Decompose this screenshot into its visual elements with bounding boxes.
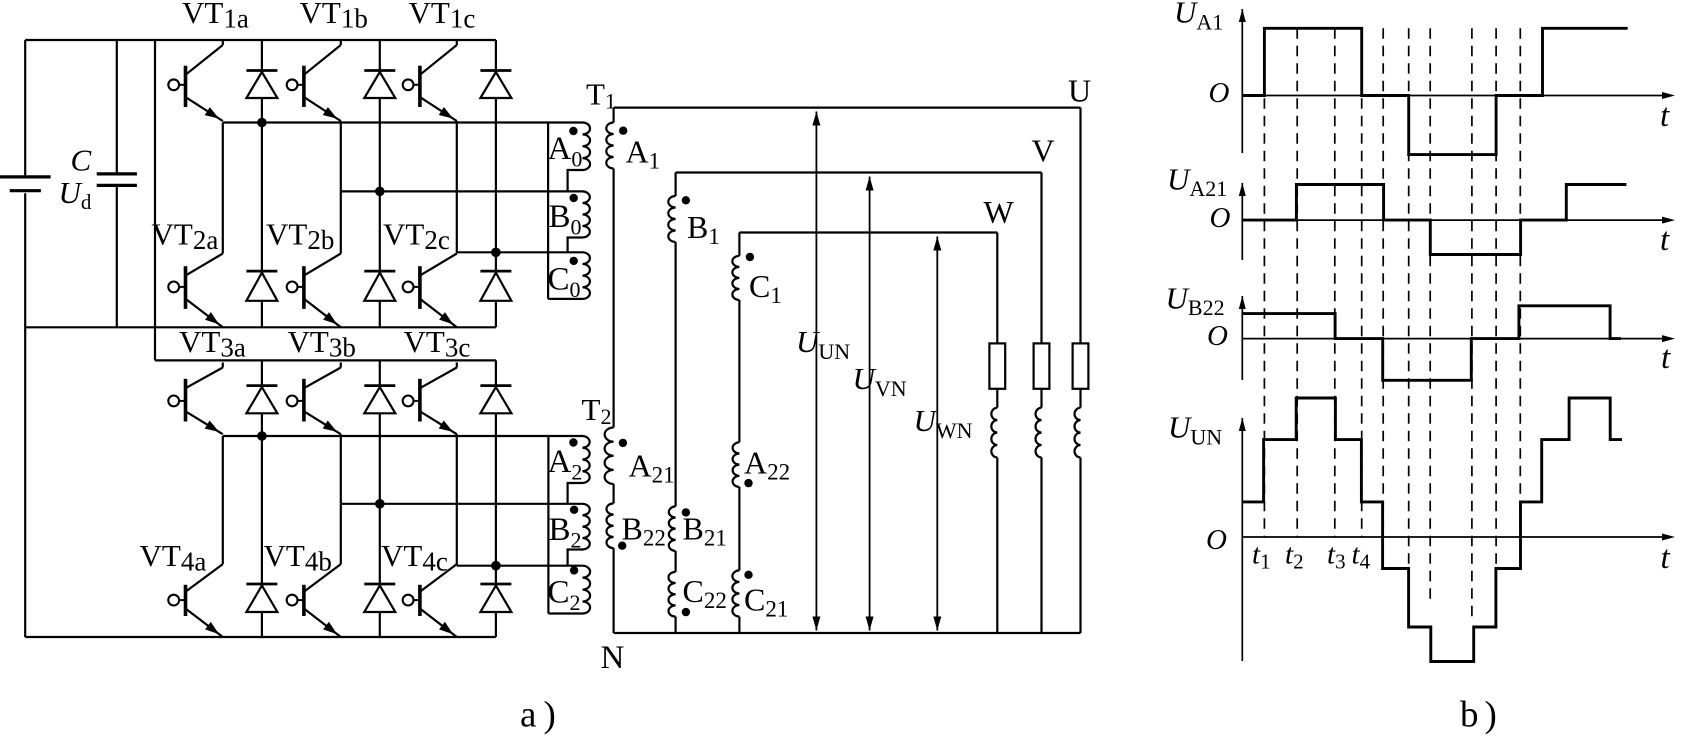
wire: top DC rail <box>25 39 496 41</box>
wire jog B0-C0 <box>568 238 583 253</box>
svg-text:VT1b: VT1b <box>300 0 368 34</box>
transistor VT3a <box>168 363 223 435</box>
diode D1a <box>246 71 277 99</box>
wire jog A0-B0 <box>568 170 583 191</box>
transistor VT2a <box>168 123 223 328</box>
wire jog A2-B2 <box>568 483 583 504</box>
battery Ud positive plate <box>0 175 51 178</box>
inductor load U <box>1075 408 1081 458</box>
transistor VT4a <box>168 436 223 637</box>
resistor load V <box>1034 343 1050 388</box>
wire: bridge left vertical <box>154 40 156 360</box>
wire <box>379 504 381 637</box>
timing dashed lines <box>1263 28 1265 537</box>
diode D3a <box>246 386 277 414</box>
wire: phase c lower <box>457 565 583 567</box>
resistor load W <box>989 343 1005 388</box>
winding B2 <box>583 504 590 550</box>
wire: phase b upper <box>341 190 583 192</box>
wire <box>1079 389 1081 408</box>
wire: phase a upper <box>223 121 583 123</box>
wire <box>379 360 381 503</box>
svg-text:O: O <box>1209 77 1230 109</box>
winding B21 <box>669 506 676 551</box>
wire <box>456 121 458 252</box>
winding B0 <box>583 191 590 237</box>
axes plot UA21 <box>1241 183 1243 260</box>
diode D2a <box>246 271 277 301</box>
wire: W rail <box>739 231 997 233</box>
svg-text:VT1a: VT1a <box>182 0 249 34</box>
capacitor C plates <box>97 172 137 175</box>
diode D4c <box>480 584 511 612</box>
axes plot UA1 <box>1241 9 1243 153</box>
wire <box>495 566 497 637</box>
svg-text:O: O <box>1207 320 1228 352</box>
svg-text:O: O <box>1210 202 1231 234</box>
voltage arrow U_WN <box>936 237 938 631</box>
node junction dots lower bridge <box>257 431 267 441</box>
winding B22 <box>606 503 613 548</box>
transistor VT2b <box>287 191 341 327</box>
svg-text:t: t <box>1661 340 1671 376</box>
wire: T1 delta return <box>547 123 549 299</box>
winding A0 <box>583 123 591 171</box>
axes plot UUN <box>1241 418 1243 661</box>
wire: capacitor branch <box>116 40 118 174</box>
voltage arrow U_UN <box>815 112 817 631</box>
svg-text:N: N <box>601 640 625 676</box>
diode D1c <box>480 71 511 99</box>
wire: W string <box>738 233 740 256</box>
svg-text:V: V <box>1032 133 1055 169</box>
diode D3b <box>364 386 395 414</box>
winding A22 <box>733 442 740 487</box>
svg-text:C: C <box>71 143 92 178</box>
wire: bottom DC rail <box>25 636 496 638</box>
wire: V rail <box>676 171 1042 173</box>
wire: mid DC rail <box>25 326 496 328</box>
inductor load V <box>1036 408 1042 458</box>
wire: V string <box>674 173 676 197</box>
winding A21 <box>605 428 614 484</box>
svg-text:W: W <box>984 194 1015 230</box>
waveform U_B22 <box>1242 306 1621 381</box>
wire <box>379 191 381 327</box>
node junction dots upper bridge <box>257 118 267 128</box>
load branch phase V: wire <box>1040 173 1042 344</box>
winding C1 <box>732 256 739 300</box>
diode D1b <box>364 71 395 99</box>
wire: phase c upper <box>457 251 583 253</box>
wire <box>340 121 342 191</box>
winding C2 <box>583 566 591 614</box>
transistor VT1c <box>403 40 457 121</box>
waveform U_A1 <box>1242 28 1627 154</box>
inductor load W <box>991 408 997 458</box>
svg-text:U: U <box>1068 73 1091 109</box>
svg-text:O: O <box>1206 524 1227 556</box>
wire <box>261 436 263 637</box>
wire: N rail <box>614 632 1081 634</box>
wire <box>456 434 458 566</box>
wire <box>495 252 497 327</box>
diode D4a <box>246 584 277 612</box>
battery Ud negative plate <box>10 189 41 192</box>
wire <box>261 40 263 123</box>
wire <box>495 40 497 252</box>
transistor VT4b <box>287 504 341 637</box>
wire: U string <box>612 108 614 123</box>
voltage arrow U_VN <box>869 177 871 631</box>
waveform U_UN <box>1242 398 1622 662</box>
waveform U_A21 <box>1242 185 1626 255</box>
wire <box>261 123 263 328</box>
wire <box>261 360 263 436</box>
wire <box>495 360 497 565</box>
wire <box>1040 458 1042 634</box>
wire: lower bridge top rail <box>155 359 496 361</box>
svg-text:t: t <box>1660 222 1670 258</box>
wire: phase a lower <box>223 435 583 437</box>
svg-text:t: t <box>1661 540 1671 576</box>
transistor VT4c <box>403 564 457 637</box>
transistor VT1b <box>287 40 341 121</box>
transistor VT1a <box>168 40 223 121</box>
winding B1 <box>668 196 675 242</box>
winding C0 <box>583 252 590 299</box>
wire <box>1079 458 1081 634</box>
wire <box>996 458 998 634</box>
wire <box>1040 389 1042 408</box>
diode D3c <box>480 386 511 414</box>
wire <box>340 434 342 504</box>
svg-text:): ) <box>544 695 556 736</box>
diode D2b <box>364 271 395 301</box>
transistor VT3b <box>287 363 341 435</box>
polarity dots secondaries <box>619 127 627 135</box>
wire: phase b lower <box>341 503 583 505</box>
wire: U rail <box>614 106 1081 108</box>
transistor VT2c <box>403 252 457 327</box>
winding A2 <box>583 436 590 483</box>
wire <box>379 40 381 191</box>
load branch phase U: wire <box>1079 108 1081 344</box>
svg-text:b: b <box>1460 695 1479 736</box>
svg-text:VT1c: VT1c <box>409 0 476 34</box>
winding C22 <box>669 572 676 617</box>
svg-text:a: a <box>520 695 536 736</box>
polarity dots T1 primary <box>569 127 577 135</box>
load branch phase W: wire <box>996 233 998 344</box>
diode D4b <box>364 584 395 612</box>
resistor load U <box>1073 343 1089 388</box>
winding C21 <box>732 570 739 616</box>
wire: DC bus outer left <box>24 40 26 176</box>
diode D2c <box>480 271 511 301</box>
winding A1 <box>606 123 613 169</box>
wire: T2 delta return <box>547 436 549 614</box>
svg-text:): ) <box>1485 695 1497 736</box>
wire <box>996 389 998 408</box>
polarity dots T2 primary <box>569 438 577 446</box>
svg-text:t: t <box>1660 98 1670 134</box>
axes plot UB22 <box>1241 296 1243 380</box>
transistor VT3c <box>403 363 457 435</box>
wire jog B2-C2 <box>568 550 583 566</box>
